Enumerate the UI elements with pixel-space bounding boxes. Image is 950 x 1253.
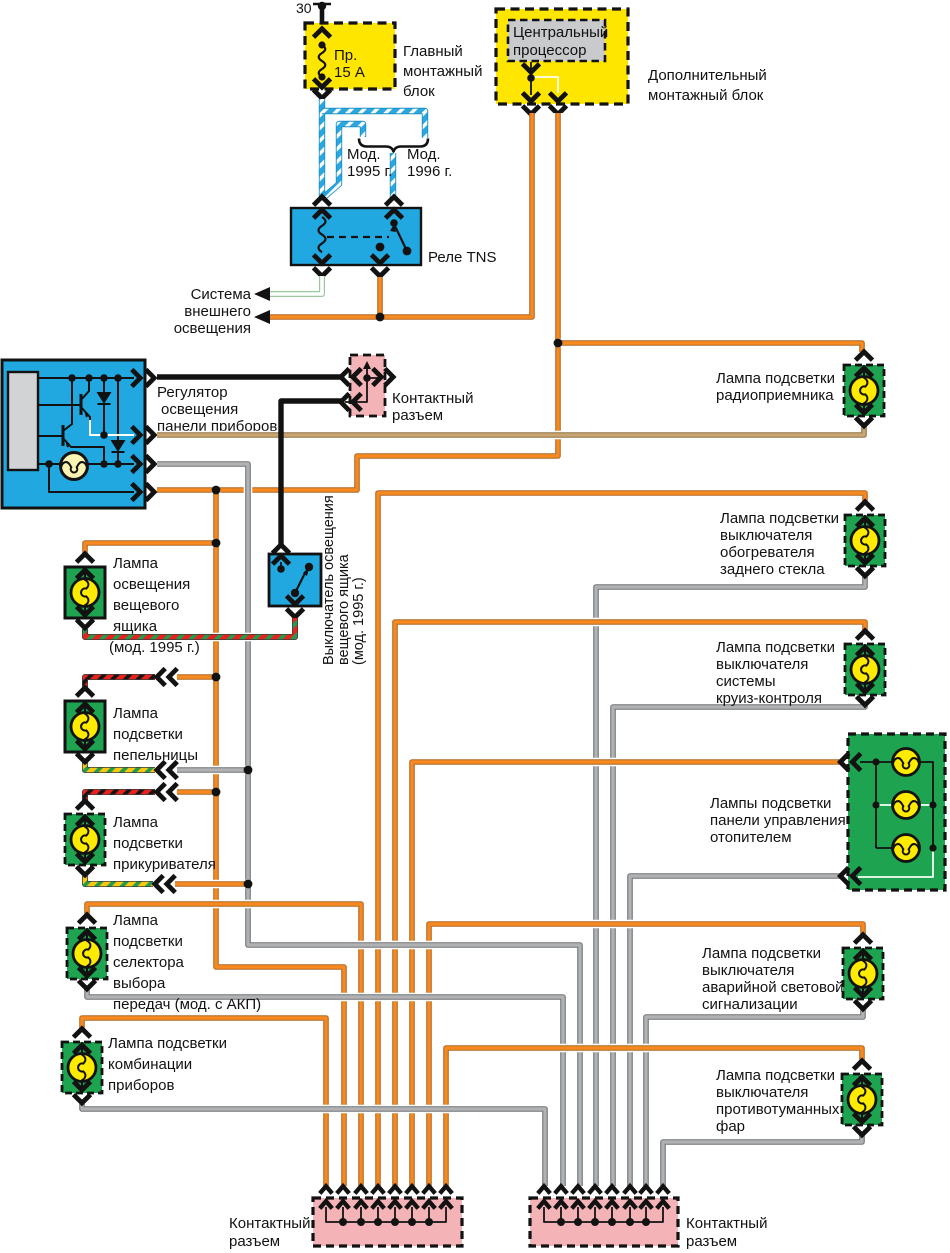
wire blue/white striped loop Мод.1996	[322, 111, 425, 138]
svg-text:монтажный блок: монтажный блок	[648, 87, 764, 104]
svg-text:заднего стекла: заднего стекла	[720, 561, 825, 578]
wire black from contact connector to glovebox switch	[281, 401, 341, 545]
svg-text:Мод.: Мод.	[407, 146, 441, 163]
svg-text:выключателя: выключателя	[716, 1084, 808, 1101]
wire black regulator pin1 to contact connector	[157, 374, 341, 379]
regulator transistor Q2	[38, 378, 104, 463]
relay coil	[319, 217, 326, 252]
lower left connector bus	[326, 1207, 446, 1226]
wire tan from radio lamp to regulator pin2	[157, 426, 864, 435]
lamp cruise control switch (Лампа подсветки выключателя круиз-контроля)	[716, 631, 885, 707]
svg-text:освещения: освещения	[174, 320, 251, 337]
main fuse box (Главный монтажный блок)	[305, 23, 482, 100]
label Система внешнего освещения	[174, 286, 252, 337]
heater panel junction dots	[872, 758, 936, 851]
svg-text:отопителем: отопителем	[710, 829, 792, 846]
lower left connector pin chevrons	[320, 1186, 452, 1208]
heater panel bulb 3	[893, 835, 920, 862]
svg-text:Центральный: Центральный	[513, 24, 608, 41]
connector pair cigarette supply	[157, 784, 177, 801]
wire red/black striped ashtray lamp supply	[85, 677, 155, 688]
wire orange jumper cigarette return to gray bus	[175, 880, 248, 889]
svg-text:выключателя: выключателя	[702, 962, 794, 979]
wire gray fog lamp return	[663, 1134, 862, 1186]
regulator top rail	[38, 377, 134, 379]
wire orange jumper ashtray supply to bus	[177, 674, 216, 680]
fuse Пр. 15 А	[314, 29, 365, 98]
wire orange selector supply segment over gray bus	[234, 900, 262, 909]
svg-text:обогревателя: обогревателя	[720, 544, 815, 561]
junction dot additional block feed / radio branch	[554, 339, 563, 348]
wire gray rear-window lamp return	[596, 577, 865, 1186]
svg-text:разъем: разъем	[686, 1233, 737, 1250]
svg-text:комбинации: комбинации	[108, 1056, 192, 1073]
svg-text:Главный: Главный	[403, 43, 463, 60]
svg-text:Лампа подсветки: Лампа подсветки	[716, 1067, 835, 1084]
svg-text:противотуманных: противотуманных	[716, 1101, 840, 1118]
wire orange branch to radio lamp	[558, 343, 862, 352]
wire blue/white striped from fuse to relay coil	[319, 99, 325, 197]
svg-text:Лампа подсветки: Лампа подсветки	[720, 510, 839, 527]
svg-text:Лампа подсветки: Лампа подсветки	[702, 945, 821, 962]
svg-text:1996 г.: 1996 г.	[407, 163, 452, 180]
svg-text:вещевого ящика: вещевого ящика	[336, 553, 352, 665]
svg-text:выключателя: выключателя	[720, 527, 812, 544]
wire gray heater panel return	[630, 876, 840, 1186]
wire orange distribution bus from regulator feed	[216, 490, 344, 1186]
lamp fog light switch (Лампа подсветки выключателя противотуманных фар)	[716, 1061, 882, 1135]
connector pair ashtray return	[157, 762, 177, 779]
lamp radio (Лампа подсветки радиоприемника)	[716, 352, 884, 426]
wire red/green striped glovebox lamp to switch	[85, 618, 295, 637]
wire blue/white striped stub below brace	[390, 153, 396, 198]
glovebox switch contacts	[277, 562, 313, 597]
svg-text:Система: Система	[191, 286, 252, 303]
svg-text:15 А: 15 А	[334, 64, 365, 81]
heater panel bulb 1	[893, 749, 920, 776]
regulator diode D2	[111, 378, 126, 464]
heater panel bulb 2	[893, 792, 920, 819]
svg-text:приборов: приборов	[108, 1077, 174, 1094]
heater control panel lamps box (Лампы подсветки панели управления отопителем)	[710, 734, 945, 890]
svg-text:передач (мод. с АКП): передач (мод. с АКП)	[113, 996, 261, 1013]
svg-text:селектора: селектора	[113, 954, 185, 971]
heater panel connector chevrons supply	[840, 754, 860, 771]
wire yellow/green striped cigarette lighter lamp return	[85, 876, 153, 884]
svg-text:разъем: разъем	[229, 1233, 280, 1250]
svg-text:1995 г.: 1995 г.	[347, 163, 392, 180]
label Мод. 1996 г.	[407, 146, 452, 180]
lower right connector pin chevrons	[538, 1186, 669, 1208]
lamp ashtray (Лампа подсветки пепельницы)	[65, 688, 198, 764]
svg-text:системы: системы	[716, 673, 776, 690]
wire yellow/green striped ashtray lamp return	[85, 762, 155, 770]
wire orange from additional block right pin down to regulator feed	[157, 113, 558, 490]
svg-text:круиз-контроля: круиз-контроля	[716, 690, 822, 707]
wire orange fog lamp supply	[446, 1048, 862, 1186]
regulator rail dots	[45, 374, 122, 468]
wire blue/white striped loop Мод.1995	[324, 124, 363, 197]
svg-text:вещевого: вещевого	[113, 597, 179, 614]
lamp gear selector (Лампа подсветки селектора)	[67, 912, 261, 1013]
wire gray instrument cluster lamp return	[82, 1104, 545, 1186]
svg-text:Регулятор: Регулятор	[157, 384, 228, 401]
relay pin chevrons	[314, 197, 403, 276]
svg-text:выбора: выбора	[113, 975, 166, 992]
svg-text:сигнализации: сигнализации	[702, 996, 798, 1013]
heater panel internal wiring	[858, 762, 933, 877]
svg-text:пепельницы: пепельницы	[113, 747, 198, 764]
svg-text:(мод. 1995 г.): (мод. 1995 г.)	[109, 639, 200, 656]
svg-text:подсветки: подсветки	[113, 933, 183, 950]
brace for model years	[359, 139, 428, 152]
label Выключатель освещения вещевого ящика (vertical)	[321, 495, 367, 665]
lower right connector bus	[544, 1207, 663, 1226]
wire orange selector lamp supply	[87, 904, 361, 1186]
svg-text:Реле TNS: Реле TNS	[428, 249, 496, 266]
svg-text:Мод.: Мод.	[347, 146, 381, 163]
wire gray selector lamp return	[87, 989, 563, 1186]
wire orange rear-window lamp supply	[378, 493, 865, 1186]
lamp instrument cluster (Лампа подсветки комбинации приборов)	[62, 1029, 227, 1103]
junction dot terminal 30	[318, 2, 326, 10]
wire orange instrument cluster lamp supply	[82, 1018, 326, 1186]
contact connector chevrons	[341, 369, 393, 411]
connector pair ashtray supply	[157, 669, 177, 686]
lamp glovebox (Лампа освещения вещевого ящика)	[65, 554, 200, 656]
svg-text:процессор: процессор	[513, 42, 586, 59]
svg-text:Лампа подсветки: Лампа подсветки	[108, 1035, 227, 1052]
glovebox switch chevrons	[273, 545, 304, 617]
wire orange jumper cigarette supply to bus	[177, 789, 216, 795]
svg-text:панели управления: панели управления	[710, 812, 846, 829]
svg-text:30: 30	[296, 0, 312, 16]
regulator pin chevrons	[132, 370, 154, 501]
regulator wire to pin 4	[49, 464, 134, 492]
node 30 terminal	[296, 0, 331, 16]
svg-text:Контактный: Контактный	[392, 390, 473, 407]
svg-text:Дополнительный: Дополнительный	[648, 67, 767, 84]
svg-text:подсветки: подсветки	[113, 835, 183, 852]
additional mounting block (Дополнительный монтажный блок)	[496, 9, 767, 104]
svg-text:Пр.: Пр.	[334, 47, 357, 64]
wire orange cruise lamp supply	[395, 622, 865, 1186]
svg-text:освещения: освещения	[161, 401, 238, 418]
svg-text:аварийной световой: аварийной световой	[702, 979, 843, 996]
regulator bulb	[61, 453, 88, 480]
wire red/black striped cigarette lighter lamp supply	[85, 792, 155, 803]
lamp cigarette lighter (Лампа подсветки прикуривателя)	[65, 801, 216, 875]
wire gray cruise lamp return	[613, 704, 865, 1186]
wire orange from additional block left pin down and to external lighting arrow	[270, 113, 532, 317]
wire orange from relay switch output	[377, 277, 383, 317]
wire green/white from relay to external lighting	[268, 276, 322, 294]
svg-text:освещения: освещения	[113, 576, 190, 593]
contact connector internal links	[345, 361, 378, 402]
svg-text:(мод. 1995 г.): (мод. 1995 г.)	[351, 577, 367, 665]
dashboard lighting regulator box (Регулятор освещения панели приборов)	[2, 360, 277, 508]
lower right contact connector (Контактный разъем)	[530, 1198, 767, 1250]
svg-text:Контактный: Контактный	[686, 1215, 767, 1232]
heater panel connector chevrons return	[840, 868, 860, 885]
lower left contact connector (Контактный разъем)	[229, 1198, 462, 1250]
central processor output node	[523, 62, 567, 114]
label Мод. 1995 г.	[347, 146, 392, 180]
regulator white wire to pin 2	[90, 420, 134, 435]
regulator transistor Q1	[38, 378, 90, 421]
svg-text:Лампа: Лампа	[113, 555, 159, 572]
wire gray jumper ashtray return to gray bus	[177, 766, 248, 775]
svg-text:выключателя: выключателя	[716, 656, 808, 673]
wire from terminal 30 to fuse	[320, 5, 325, 26]
svg-text:Лампа: Лампа	[113, 705, 159, 722]
svg-text:Лампа подсветки: Лампа подсветки	[716, 639, 835, 656]
arrow to external lighting system (green wire)	[254, 287, 270, 301]
svg-text:Лампа: Лампа	[113, 912, 159, 929]
svg-text:блок: блок	[403, 83, 435, 100]
wire gray hazard lamp return	[646, 1009, 863, 1186]
svg-text:Лампа: Лампа	[113, 814, 159, 831]
svg-text:разъем: разъем	[392, 407, 443, 424]
regulator potentiometer block	[8, 372, 38, 470]
svg-text:ящика: ящика	[113, 618, 158, 635]
relay TNS box	[291, 208, 496, 266]
svg-text:внешнего: внешнего	[184, 303, 251, 320]
junction dot relay output to lighting bus	[376, 313, 385, 322]
svg-text:прикуривателя: прикуривателя	[113, 856, 216, 873]
regulator bottom rail pin 3	[38, 463, 134, 465]
glovebox light switch box (Выключатель освещения вещевого ящика)	[269, 554, 321, 606]
svg-text:Выключатель освещения: Выключатель освещения	[321, 495, 337, 665]
wire gray return bus from regulator pin3	[157, 464, 580, 1186]
junction dots on distribution buses	[212, 486, 253, 889]
wire orange glovebox lamp supply	[85, 543, 216, 554]
lamp hazard switch (Лампа подсветки выключателя аварийной сигнализации)	[702, 935, 883, 1013]
svg-text:монтажный: монтажный	[403, 63, 482, 80]
svg-text:Контактный: Контактный	[229, 1215, 310, 1232]
svg-text:фар: фар	[716, 1118, 745, 1135]
connector pair cigarette return	[155, 876, 175, 893]
relay switch	[376, 219, 412, 255]
arrow to external lighting (orange wire)	[254, 310, 270, 324]
regulator diode D1	[97, 378, 112, 436]
svg-text:подсветки: подсветки	[113, 726, 183, 743]
wire orange hazard lamp supply	[429, 924, 863, 1186]
relay dashed link	[327, 236, 389, 238]
wire orange heater panel supply	[412, 762, 840, 1186]
lamp rear window heater switch (Лампа подсветки выключателя обогревателя)	[720, 502, 885, 578]
contact connector (upper, Контактный разъем)	[350, 355, 473, 424]
svg-text:Лампа подсветки: Лампа подсветки	[716, 370, 835, 387]
svg-text:радиоприемника: радиоприемника	[716, 387, 834, 404]
svg-text:Лампы подсветки: Лампы подсветки	[710, 795, 831, 812]
